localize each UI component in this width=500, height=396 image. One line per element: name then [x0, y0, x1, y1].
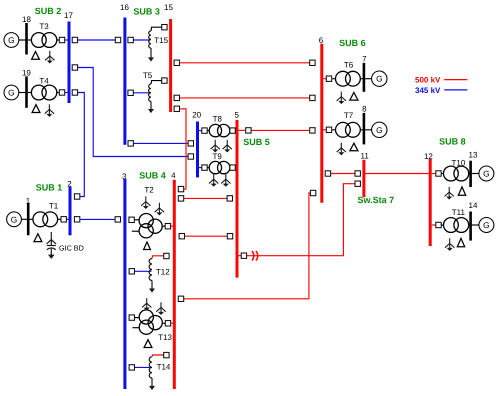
svg-text:16: 16: [120, 3, 129, 12]
breaker bus17 line to bus2: [72, 90, 77, 95]
breaker bus16-T5: [128, 90, 133, 95]
generator G at bus 14: [479, 218, 494, 233]
generator G at bus 13: [479, 166, 494, 181]
svg-text:G: G: [11, 214, 17, 224]
grounded wye winding T10: [445, 187, 454, 199]
svg-text:345 kV: 345 kV: [415, 86, 441, 95]
wire bus15-bus6 500kV line B: [180, 97, 310, 99]
svg-text:SUB 8: SUB 8: [439, 137, 466, 147]
breaker bus6 line to bus11: [325, 171, 330, 176]
svg-text:8: 8: [362, 104, 367, 113]
svg-text:19: 19: [22, 68, 31, 77]
breaker bus6 line B: [310, 95, 315, 100]
breaker bus3-T14: [129, 365, 134, 370]
GIC blocking device at T1 neutral: [47, 232, 56, 259]
svg-text:T1: T1: [49, 202, 59, 211]
svg-text:T12: T12: [156, 267, 170, 276]
grounded wye winding T11: [445, 238, 454, 250]
svg-text:11: 11: [361, 152, 370, 161]
svg-text:15: 15: [164, 3, 173, 12]
generator G at bus 7: [372, 71, 387, 86]
wire T13 secondary lead: [162, 322, 165, 324]
svg-text:SUB 3: SUB 3: [133, 7, 160, 17]
stub T13sq-bus4: [171, 322, 173, 324]
generator G at bus 18: [4, 33, 19, 48]
stub T1sq-bus2: [66, 218, 69, 220]
svg-text:G: G: [8, 35, 14, 45]
breaker bus16 line to bus20: [128, 141, 133, 146]
breaker bus20 line from bus17: [188, 154, 193, 159]
delta winding T13: [144, 340, 152, 348]
breaker bus2 line to bus17: [74, 194, 79, 199]
stub bus6-T7sq: [323, 129, 326, 131]
bus 3 (345 kV): [123, 179, 126, 389]
grounded wye winding T9 left: [209, 174, 218, 186]
svg-text:14: 14: [469, 201, 478, 210]
breaker bus6 line A: [310, 60, 315, 65]
svg-text:T9: T9: [213, 152, 223, 161]
breaker bus4 line1 to bus5: [178, 196, 183, 201]
wire bus1-T1: [29, 218, 33, 220]
generator G at bus 8: [372, 122, 387, 137]
breaker bus20-T9: [202, 165, 207, 170]
breaker bus5 line2 from bus4: [227, 234, 232, 239]
wire T11sq-T11: [441, 224, 443, 226]
breaker bus5 line D: [246, 128, 251, 133]
legend 500 kV line sample: [444, 79, 467, 81]
breaker T13-bus4: [165, 321, 170, 326]
wire bus19-T4: [28, 92, 32, 94]
bus 15 (500 kV): [169, 19, 172, 112]
wire T13 primary lead: [135, 317, 140, 319]
breaker bus11 series-comp line: [355, 181, 360, 186]
wire T11-bus14: [468, 224, 471, 226]
svg-text:T3: T3: [39, 22, 49, 31]
transformer T4: [31, 85, 56, 100]
stub T2sq-bus4: [171, 225, 173, 227]
delta winding T10: [458, 187, 465, 195]
bus 7: [363, 63, 366, 92]
stub bus5-lineD sq: [239, 129, 246, 131]
svg-text:SUB 6: SUB 6: [339, 38, 366, 48]
svg-text:SUB 5: SUB 5: [243, 137, 270, 147]
svg-text:3: 3: [122, 172, 127, 181]
transformer T6: [336, 71, 361, 86]
svg-text:T4: T4: [39, 76, 49, 85]
delta winding T11: [457, 238, 464, 246]
stub bus12-T11sq: [432, 224, 436, 226]
breaker bus17 line to bus20: [72, 65, 77, 70]
svg-text:7: 7: [362, 54, 367, 63]
breaker T1-bus2: [61, 217, 66, 222]
autotransformer T15 winding: [149, 31, 151, 48]
grounded wye winding T9 right: [221, 174, 230, 186]
svg-text:SUB 1: SUB 1: [36, 182, 63, 192]
grounded wye winding T13 secondary: [156, 302, 165, 314]
T5 ground arrow: [148, 102, 153, 113]
svg-text:G: G: [483, 220, 489, 230]
autotransformer T15 winding top lead: [151, 27, 162, 31]
breaker bus6 line to bus4: [310, 190, 315, 195]
delta winding T2: [144, 242, 151, 250]
breaker bus5 series-comp line: [241, 253, 246, 258]
breaker T4-bus17: [59, 90, 64, 95]
transformer T8: [209, 124, 230, 136]
stub bus20-T8sq: [199, 130, 202, 132]
wire G1-bus18: [19, 39, 26, 41]
svg-text:T7: T7: [344, 111, 354, 120]
breaker T15-bus15: [162, 25, 167, 30]
breaker bus3-T2: [129, 217, 134, 222]
autotransformer T14 winding top lead: [152, 355, 164, 357]
svg-text:T6: T6: [344, 60, 354, 69]
grounded wye winding T3: [45, 51, 54, 63]
wire bus7-G4: [365, 78, 372, 80]
svg-text:T2: T2: [144, 185, 154, 194]
transformer T10: [444, 166, 469, 181]
wire T7-bus8: [360, 129, 362, 131]
wire bus3-T14 tap: [135, 366, 152, 368]
svg-text:GIC BD: GIC BD: [59, 243, 84, 252]
svg-text:T14: T14: [157, 363, 171, 372]
wire bus4-bus5 500kV line 2: [185, 235, 228, 237]
svg-text:6: 6: [319, 36, 324, 45]
breaker bus4 line2 to bus5: [179, 234, 184, 239]
transformer T1: [33, 212, 58, 227]
svg-text:SUB 4: SUB 4: [139, 171, 166, 181]
breaker bus6-T6: [326, 76, 331, 81]
wire bus16-T5 tap: [133, 92, 150, 94]
svg-text:T15: T15: [154, 36, 168, 45]
bus 19: [25, 76, 28, 107]
breaker bus15 line A: [174, 60, 179, 65]
wire T10-bus13: [468, 173, 471, 175]
stub bus20-T9sq: [199, 167, 202, 169]
breaker T3-bus17: [59, 37, 64, 42]
bus 2 (345 kV): [69, 187, 72, 236]
wire bus5-bus11 500kV series-comp line: [247, 184, 355, 256]
wire bus17-bus16 345kV line: [72, 39, 115, 41]
autotransformer T12 winding top lead: [152, 256, 164, 259]
wire bus8-G5: [365, 129, 372, 131]
svg-text:5: 5: [234, 110, 239, 119]
breaker bus2 line to bus3: [74, 217, 79, 222]
autotransformer T5 winding top lead: [151, 81, 162, 84]
wire bus6-bus11 500kV line: [331, 173, 355, 175]
breaker bus3-T13: [129, 315, 134, 320]
svg-text:G: G: [376, 125, 382, 135]
transformer T13: [139, 310, 162, 334]
bus 14: [469, 212, 472, 241]
transformer T2: [139, 214, 162, 238]
svg-text:T11: T11: [452, 208, 466, 217]
bus 18: [25, 23, 28, 55]
wire G3-bus1: [21, 218, 27, 220]
wire T2 primary lead: [134, 219, 139, 221]
breaker T8-bus5: [230, 128, 235, 133]
breaker bus20 line from bus16: [188, 141, 193, 146]
svg-text:17: 17: [64, 11, 73, 20]
wire T8sq-T8: [207, 130, 209, 132]
delta winding T7: [350, 143, 358, 151]
bus 16 (345 kV): [123, 18, 126, 145]
svg-text:12: 12: [424, 152, 433, 161]
wire bus2-bus3 345kV line: [80, 218, 115, 220]
autotransformer T5 winding: [149, 84, 151, 102]
breaker bus15 line C: [174, 106, 179, 111]
breaker bus5 line1 from bus4: [227, 196, 232, 201]
breaker bus12-T10: [436, 171, 441, 176]
bus 5 (500 kV): [236, 120, 239, 278]
svg-text:G: G: [376, 74, 382, 84]
T12 ground arrow: [149, 281, 154, 293]
svg-text:500 kV: 500 kV: [415, 76, 441, 85]
grounded wye winding T8 left: [211, 140, 220, 152]
transformer T3: [31, 33, 56, 48]
bus 13: [469, 161, 472, 187]
wire T7sq-T7: [332, 129, 335, 131]
breaker T9-bus5: [230, 165, 235, 170]
grounded wye winding T7: [337, 143, 346, 155]
wire T6-bus7: [360, 78, 362, 80]
svg-text:20: 20: [192, 111, 201, 120]
generator G at bus 1: [7, 212, 22, 227]
breaker T5-bus15: [162, 78, 167, 83]
svg-text:T13: T13: [158, 333, 172, 342]
wire bus17-bus20 345kV line: [78, 68, 189, 157]
legend 345 kV line sample: [444, 89, 467, 91]
wire bus3-T12 tap: [135, 270, 152, 272]
svg-text:G: G: [8, 88, 14, 98]
wire T4-sq: [57, 92, 60, 94]
breaker bus4 line from bus6: [178, 296, 183, 301]
wire T1-sq: [58, 218, 61, 220]
wire bus4-bus5 500kV line 1: [184, 197, 227, 199]
T15 ground arrow: [148, 48, 153, 61]
grounded wye winding T2 primary: [141, 196, 150, 208]
grounded wye winding T13 primary: [142, 298, 151, 310]
breaker bus11 line from bus6: [355, 171, 360, 176]
svg-text:13: 13: [469, 150, 478, 159]
stub T4sq-bus17: [65, 92, 68, 94]
wire G2-bus19: [19, 92, 26, 94]
breaker bus6-T7: [326, 127, 331, 132]
wire T9sq-T9: [207, 167, 209, 169]
wire bus14-G7: [472, 224, 479, 226]
wire T8-bus5 sq: [229, 130, 231, 132]
breaker bus4-T14: [164, 352, 169, 357]
wire bus6-bus4 500kV line: [184, 193, 311, 299]
wire bus15-bus6 500kV line A: [180, 62, 310, 64]
transformer T7: [336, 122, 361, 137]
breaker bus16 line from bus17: [115, 37, 120, 42]
breaker bus4 line C: [178, 186, 183, 191]
breaker bus15 line B: [174, 95, 179, 100]
wire bus18-T3: [28, 39, 32, 41]
wire T2 tertiary stub: [132, 230, 139, 232]
wire T2 secondary lead: [162, 225, 165, 227]
bus 4 (500 kV): [173, 180, 176, 389]
svg-text:2: 2: [67, 179, 72, 188]
delta winding T3: [32, 52, 40, 60]
wire bus11-bus12 500kV line: [365, 173, 429, 175]
breaker bus6 line D: [310, 128, 315, 133]
bus 8: [363, 113, 366, 144]
breaker bus3 line from bus2: [115, 217, 120, 222]
breaker bus12-T11: [436, 222, 441, 227]
wire bus16-T15 tap: [133, 39, 150, 41]
svg-text:G: G: [483, 169, 489, 179]
stub bus12-T10sq: [432, 173, 436, 175]
wire bus13-G6: [472, 173, 479, 175]
breaker bus4-T12: [164, 253, 169, 258]
stub T3sq-bus17: [65, 39, 68, 41]
grounded wye winding T2 secondary: [155, 203, 164, 215]
stub bus5-cap sq: [239, 255, 242, 257]
svg-text:T5: T5: [143, 71, 153, 80]
breaker bus16-T15: [128, 37, 133, 42]
grounded wye winding T4: [45, 104, 54, 116]
stub bus6-T6sq: [323, 78, 326, 80]
generator G at bus 19: [4, 85, 19, 100]
bus 12 (500 kV): [429, 159, 432, 246]
wire bus15-bus4 500kV line C: [180, 109, 187, 189]
bus 6 (500 kV): [320, 44, 323, 203]
grounded wye winding T8 right: [223, 140, 232, 152]
T14 ground arrow: [149, 378, 154, 390]
breaker bus17 line to bus16: [72, 37, 77, 42]
wire bus17-bus2 345kV line: [78, 93, 85, 197]
wire bus5-bus6 500kV line D: [251, 129, 310, 131]
wire T6sq-T6: [332, 78, 335, 80]
grounded wye winding T6: [337, 92, 346, 104]
breaker bus3-T12: [129, 269, 134, 274]
wire T3-sq: [57, 39, 60, 41]
delta winding T4: [32, 105, 40, 113]
bus 11 (500 kV): [362, 160, 365, 197]
wire bus16-bus20 345kV line: [133, 142, 188, 144]
bus 17 (345 kV): [68, 22, 71, 104]
series capacitor on bus5-bus11 line: [252, 251, 258, 261]
svg-text:SUB 2: SUB 2: [35, 6, 62, 16]
svg-text:T8: T8: [213, 114, 223, 123]
bus 20 (345 kV): [196, 122, 199, 178]
transformer T9: [209, 161, 230, 173]
transformer T11: [444, 218, 469, 233]
svg-text:1: 1: [26, 196, 31, 205]
delta winding T6: [350, 93, 358, 101]
delta winding T1: [34, 234, 42, 242]
wire T10sq-T10: [441, 173, 443, 175]
svg-text:Sw.Sta 7: Sw.Sta 7: [357, 195, 394, 205]
svg-text:18: 18: [22, 15, 31, 24]
svg-text:4: 4: [171, 171, 176, 180]
svg-text:T10: T10: [452, 158, 466, 167]
breaker T2-bus4: [165, 224, 170, 229]
wire T13 tertiary stub: [132, 327, 139, 329]
autotransformer T14 winding: [149, 357, 152, 378]
breaker bus20-T8: [202, 128, 207, 133]
bus 1: [27, 203, 30, 235]
autotransformer T12 winding: [149, 259, 152, 281]
